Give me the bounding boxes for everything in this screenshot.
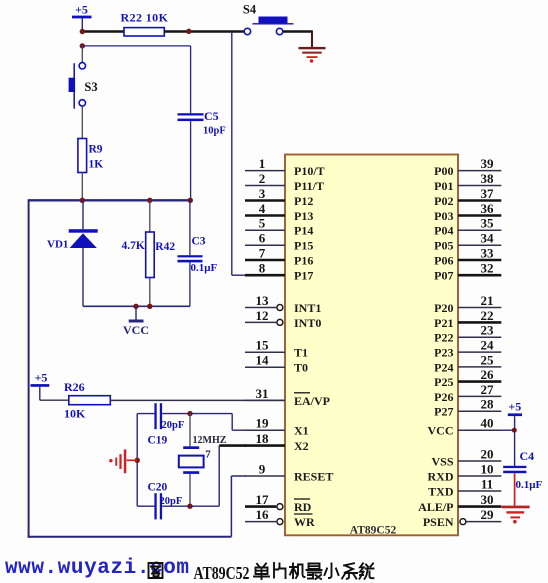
wire S4 to ground [284, 30, 313, 33]
wire corner to pin 8 [232, 274, 245, 276]
wire +5 to node [81, 18, 83, 32]
wire to pin 19 [232, 429, 245, 431]
pin 28 P27 (right) [434, 397, 501, 419]
pin 15 T1 (left) [245, 338, 308, 360]
svg-text:EA/VP: EA/VP [294, 394, 330, 408]
wire C4 to ground [514, 473, 516, 506]
svg-text:1K: 1K [89, 159, 104, 171]
wire bracket to C20 [137, 505, 154, 507]
svg-text:P05: P05 [434, 239, 453, 253]
wire bracket to C19 [137, 413, 154, 415]
pin 3 P12 (left) [245, 186, 313, 208]
svg-text:C20: C20 [148, 482, 168, 494]
svg-text:39: 39 [481, 156, 495, 171]
wire crystal to X2 node [189, 474, 191, 506]
svg-text:20: 20 [481, 446, 494, 461]
wire pin40 to +5 node [501, 429, 514, 431]
svg-text:+5: +5 [35, 371, 48, 385]
wire down to C5 [190, 46, 192, 113]
svg-text:25: 25 [481, 352, 495, 367]
svg-text:0.1μF: 0.1μF [516, 479, 543, 491]
svg-text:C19: C19 [148, 435, 168, 447]
wire X2 node right [190, 505, 219, 507]
junction R42 bottom [147, 304, 152, 309]
diode VD1 [47, 229, 98, 250]
svg-text:37: 37 [481, 186, 495, 201]
svg-text:0.1μF: 0.1μF [191, 262, 218, 274]
svg-text:29: 29 [481, 507, 495, 522]
pin 21 P20 (right) [434, 293, 501, 315]
svg-text:P16: P16 [294, 253, 313, 267]
wire S4 node to P17 [231, 32, 233, 276]
resistor R9 [78, 139, 103, 173]
svg-text:P25: P25 [434, 375, 453, 389]
pin 14 T0 (left) [245, 353, 308, 375]
wire R22 to S4 [164, 30, 243, 33]
pin 6 P15 (left) [245, 231, 313, 253]
pin 11 TXD (right) [428, 476, 501, 498]
svg-text:21: 21 [481, 293, 494, 308]
svg-text:P13: P13 [294, 209, 313, 223]
svg-text:VSS: VSS [431, 454, 453, 468]
pin 19 X1 (left) [245, 416, 309, 438]
pin 37 P02 (right) [434, 186, 501, 208]
power +5 (top left) [72, 3, 92, 19]
wire up to X2 [218, 446, 220, 507]
svg-text:17: 17 [256, 492, 270, 507]
wire to R42 [149, 200, 151, 232]
svg-text:S3: S3 [84, 80, 97, 94]
svg-text:16: 16 [256, 507, 270, 522]
pin 9 RESET (left) [245, 461, 333, 483]
svg-text:30: 30 [481, 492, 494, 507]
svg-text:14: 14 [256, 353, 270, 368]
pin 40 VCC (right) [428, 416, 502, 438]
wire R9 to node line [81, 173, 83, 201]
svg-text:P26: P26 [434, 390, 453, 404]
capacitor C20 [148, 482, 183, 520]
pin 20 VSS (right) [431, 446, 501, 468]
svg-text:R22 10K: R22 10K [121, 11, 169, 25]
pin 1 P10/T (left) [245, 156, 325, 178]
wire to VD1 [82, 200, 84, 229]
pin 36 P03 (right) [434, 201, 501, 223]
wire R26 to EA/VP pin 31 [110, 399, 285, 401]
power VCC [123, 306, 149, 337]
svg-text:1: 1 [259, 156, 266, 171]
svg-text:P17: P17 [294, 269, 313, 283]
wire reset node line [29, 199, 191, 201]
svg-text:AT89C52: AT89C52 [194, 563, 250, 583]
pin 26 P25 (right) [434, 367, 501, 389]
svg-text:C3: C3 [192, 236, 206, 248]
pin 31 EA/VP (left) [245, 386, 330, 408]
svg-text:40: 40 [481, 416, 494, 431]
svg-text:VCC: VCC [428, 424, 454, 438]
pin 13 INT1 (left) [245, 293, 321, 315]
svg-text:+5: +5 [75, 3, 88, 17]
svg-text:36: 36 [481, 201, 495, 216]
svg-text:+5: +5 [508, 400, 521, 414]
caption glyph tong [360, 563, 374, 579]
IC U1 AT89C52 body [285, 155, 458, 537]
pin 4 P13 (left) [245, 201, 313, 223]
power +5 (lower left) [31, 371, 50, 387]
pin 33 P06 (right) [434, 245, 501, 267]
svg-text:20pF: 20pF [160, 496, 183, 507]
svg-text:P06: P06 [434, 253, 453, 267]
svg-text:P27: P27 [434, 405, 453, 419]
svg-text:VD1: VD1 [47, 239, 68, 251]
resistor R42 [122, 232, 176, 278]
pin 17 RD (left) [245, 492, 312, 514]
svg-text:R42: R42 [155, 241, 175, 253]
svg-text:P10/T: P10/T [294, 164, 325, 178]
wire C19/C20 bracket [136, 414, 138, 507]
wire to R26 [40, 399, 69, 401]
pin 16 WR (left) [245, 507, 315, 529]
svg-text:38: 38 [481, 171, 495, 186]
svg-text:23: 23 [481, 323, 495, 338]
wire VD1 to bottom line [82, 248, 84, 306]
svg-text:4: 4 [259, 201, 266, 216]
capacitor C19 [148, 403, 185, 446]
junction +5/R22 [80, 29, 85, 34]
wire R42 to bottom line [149, 278, 151, 307]
wire branch to C5 [82, 45, 190, 47]
capacitor C3 [178, 236, 218, 275]
svg-text:P01: P01 [434, 179, 453, 193]
pin 22 P21 (right) [434, 308, 501, 330]
svg-text:10pF: 10pF [203, 126, 226, 137]
svg-text:22: 22 [481, 308, 494, 323]
svg-text:28: 28 [481, 397, 495, 412]
pin 27 P26 (right) [434, 382, 501, 404]
wire bottom run [28, 536, 232, 538]
svg-text:INT0: INT0 [294, 316, 321, 330]
svg-text:P00: P00 [434, 164, 453, 178]
wire +5 down to C4 [514, 416, 516, 466]
svg-text:P24: P24 [434, 360, 453, 374]
wire to crystal ground [127, 459, 138, 461]
caption glyph dan [254, 564, 269, 580]
svg-text:31: 31 [256, 386, 269, 401]
caption glyph ji [290, 564, 305, 579]
wire S3 to R9 [81, 107, 83, 139]
svg-text:P20: P20 [434, 301, 453, 315]
pin 30 ALE/P (right) [418, 492, 501, 514]
svg-text:S4: S4 [243, 3, 257, 17]
svg-text:10: 10 [481, 461, 494, 476]
svg-text:12: 12 [256, 308, 269, 323]
svg-text:24: 24 [481, 338, 495, 353]
svg-text:19: 19 [256, 416, 270, 431]
junction VD1 [80, 198, 85, 203]
junction X1 node [187, 411, 192, 416]
svg-text:INT1: INT1 [294, 301, 321, 315]
svg-text:34: 34 [481, 231, 495, 246]
pin 8 P17 (left) [245, 261, 313, 283]
wire C20 to X2 node [162, 505, 190, 507]
caption glyph xiao [325, 564, 339, 579]
pin 18 X2 (left) [245, 431, 309, 453]
wire C19 to crystal node [162, 413, 190, 415]
pin 23 P22 (right) [434, 323, 501, 345]
svg-text:AT89C52: AT89C52 [350, 525, 397, 537]
wire node to crystal [189, 414, 191, 447]
pin 35 P04 (right) [434, 216, 501, 238]
junction C5 branch [186, 29, 191, 34]
svg-text:R26: R26 [64, 380, 85, 394]
svg-text:7: 7 [205, 449, 211, 461]
pin 2 P11/T (left) [245, 171, 324, 193]
crystal Y1 12MHZ [179, 435, 227, 474]
switch S4 [243, 3, 294, 35]
svg-text:WR: WR [294, 515, 315, 529]
caption glyph pian [274, 563, 286, 578]
power +5 (right) [508, 400, 522, 417]
wire left vertical [28, 199, 30, 538]
pin 32 P07 (right) [434, 261, 501, 283]
wire bottom node line [83, 305, 190, 307]
wire X1 node right [190, 413, 232, 415]
svg-text:T1: T1 [294, 346, 308, 360]
svg-text:RXD: RXD [428, 469, 454, 483]
svg-text:32: 32 [481, 261, 494, 276]
svg-text:13: 13 [256, 293, 270, 308]
wire up to RESET [230, 476, 232, 537]
wire ground drop [311, 30, 313, 47]
svg-text:26: 26 [481, 367, 495, 382]
junction VCC pin [512, 428, 517, 433]
svg-text:33: 33 [481, 245, 495, 260]
svg-text:7: 7 [259, 245, 266, 260]
svg-text:P11/T: P11/T [294, 179, 324, 193]
svg-text:11: 11 [481, 476, 493, 491]
wire C3 to bottom line [189, 262, 191, 306]
junction VCC [133, 304, 138, 309]
junction X2 node [187, 504, 192, 509]
junction S3 branch [80, 43, 85, 48]
pin 38 P01 (right) [434, 171, 501, 193]
pin 5 P14 (left) [245, 216, 313, 238]
svg-text:27: 27 [481, 382, 495, 397]
wire to pin 18 [219, 444, 246, 447]
switch S3 [69, 63, 98, 109]
svg-text:6: 6 [259, 231, 266, 246]
svg-text:P14: P14 [294, 224, 313, 238]
svg-text:20pF: 20pF [162, 420, 185, 431]
wire to pin 9 [231, 475, 246, 477]
svg-text:35: 35 [481, 216, 495, 231]
svg-text:VCC: VCC [123, 323, 149, 337]
svg-text:T0: T0 [294, 361, 308, 375]
svg-text:8: 8 [259, 261, 266, 276]
wire node to R22 [82, 30, 124, 33]
svg-text:PSEN: PSEN [423, 515, 454, 529]
pin 10 RXD (right) [428, 461, 502, 483]
svg-text:P07: P07 [434, 269, 453, 283]
svg-text:15: 15 [256, 338, 270, 353]
svg-text:X1: X1 [294, 424, 309, 438]
svg-text:C5: C5 [204, 109, 219, 123]
pin 25 P24 (right) [434, 352, 501, 374]
svg-text:R9: R9 [89, 144, 103, 156]
pin 24 P23 (right) [434, 338, 501, 360]
pin 7 P16 (left) [245, 245, 313, 267]
svg-text:C4: C4 [520, 449, 535, 463]
svg-text:X2: X2 [294, 439, 309, 453]
svg-text:P23: P23 [434, 346, 453, 360]
svg-text:RD: RD [294, 500, 312, 514]
wire to C3 [189, 200, 191, 255]
caption glyph zui [307, 564, 322, 580]
svg-text:P03: P03 [434, 209, 453, 223]
caption glyph xi [342, 563, 357, 579]
svg-text:4.7K: 4.7K [122, 240, 145, 252]
junction R42 [147, 198, 152, 203]
caption glyph tu [149, 563, 163, 578]
svg-text:P21: P21 [434, 316, 453, 330]
junction crystal ground [135, 458, 140, 463]
wire C5 to node line [190, 121, 192, 200]
svg-text:9: 9 [259, 461, 266, 476]
pin 29 PSEN (right) [423, 507, 501, 529]
svg-text:5: 5 [259, 216, 266, 231]
ground (crystal, rotated) [109, 449, 126, 473]
ground (top, at S4) [299, 47, 326, 63]
pin 39 P00 (right) [434, 156, 501, 178]
wire to S3 [81, 46, 83, 62]
svg-text:www.wuyazi.com: www.wuyazi.com [5, 557, 189, 580]
svg-text:P04: P04 [434, 224, 453, 238]
svg-text:ALE/P: ALE/P [418, 500, 453, 514]
wire step down to X1 [231, 414, 233, 431]
svg-text:P22: P22 [434, 331, 453, 345]
svg-text:P15: P15 [294, 239, 313, 253]
pin 12 INT0 (left) [245, 308, 321, 330]
ground (right, at C4) [502, 506, 530, 524]
capacitor C5 [178, 109, 226, 137]
svg-text:RESET: RESET [294, 469, 333, 483]
capacitor C4 [503, 449, 542, 491]
svg-text:P02: P02 [434, 194, 453, 208]
svg-text:P12: P12 [294, 194, 313, 208]
resistor R26 [64, 380, 110, 421]
svg-text:3: 3 [259, 186, 266, 201]
svg-text:2: 2 [259, 171, 266, 186]
pin 34 P05 (right) [434, 231, 501, 253]
svg-text:18: 18 [256, 431, 270, 446]
wire +5 to R26 [39, 387, 41, 400]
resistor R22 [121, 11, 169, 37]
junction C3 [188, 198, 193, 203]
svg-text:10K: 10K [64, 407, 86, 421]
svg-text:TXD: TXD [428, 484, 454, 498]
